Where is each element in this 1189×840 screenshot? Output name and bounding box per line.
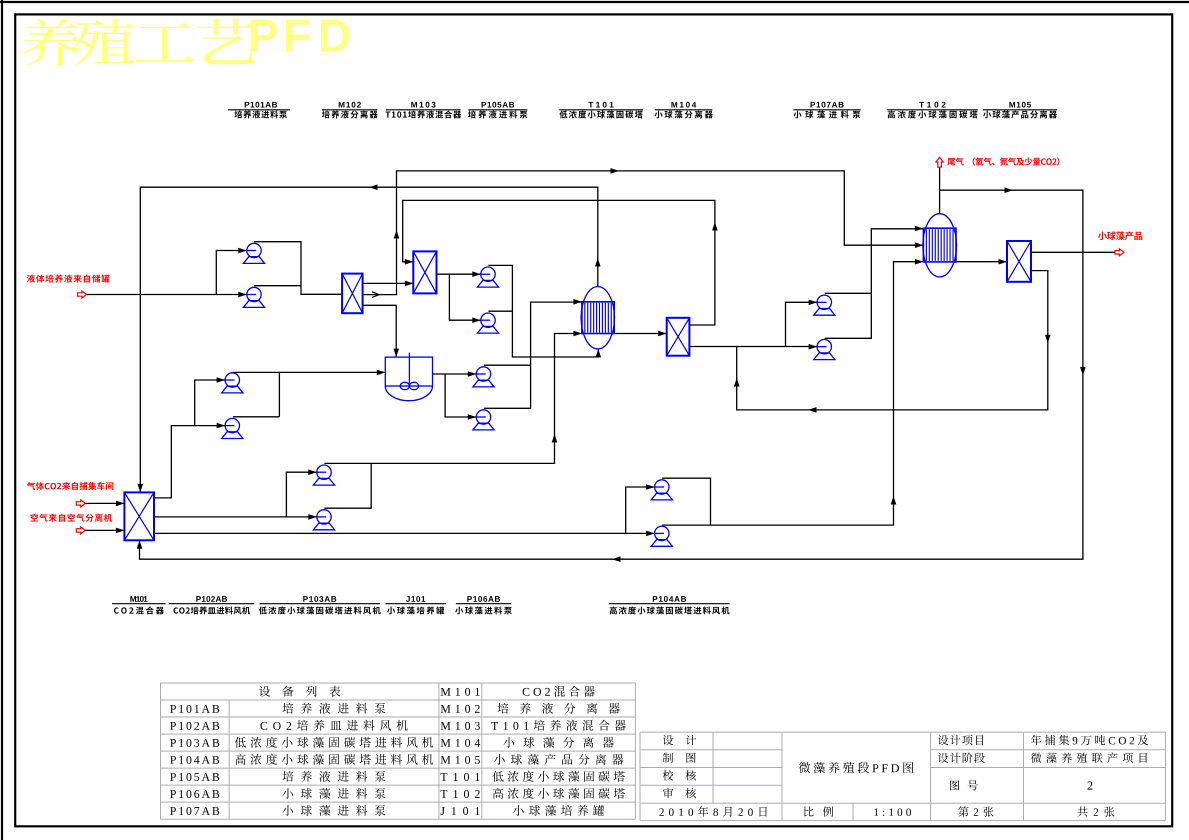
title block text <box>659 735 1148 817</box>
equipment label P104AB 高浓度小球藻固碳塔进料风机 <box>609 596 730 614</box>
equipment label M104 小球藻分离器 <box>655 102 713 119</box>
pump P102A <box>222 373 243 393</box>
stream inlet arrow (CO2 feed) <box>76 500 85 507</box>
title block grid <box>640 732 1166 821</box>
equipment label P101AB 培养液进料泵 <box>228 102 290 119</box>
wire P107 discharge to T102 top inlet <box>825 226 924 339</box>
separator M105 <box>1007 241 1031 282</box>
stream label 尾气（氧气、氮气及少量CO2） <box>947 157 1059 165</box>
wire M103 out to P105 pumps <box>437 271 481 323</box>
wire P102 discharge to J101 inlet <box>233 370 386 417</box>
pump P103B <box>313 510 334 530</box>
pump P105A <box>477 267 498 287</box>
wire P103 discharge to T101 gas inlet <box>324 331 582 509</box>
wire M105 to product outlet <box>1031 251 1115 253</box>
stream label 液体培养液来自储罐 <box>27 275 110 283</box>
pump P101B <box>243 287 264 307</box>
pump P107A <box>814 295 835 315</box>
equipment label T101 低浓度小球藻固碳塔 <box>559 102 643 119</box>
stream label 空气来自空气分离机 <box>31 514 113 522</box>
tank J101 with agitator <box>385 353 432 401</box>
wire culture feed to P101 pumps <box>87 248 247 298</box>
equipment label P102AB CO2培养皿进料风机 <box>169 596 254 614</box>
wire T101 outlet to M104 <box>614 331 667 337</box>
equipment label P105AB 培养液进料泵 <box>468 102 527 119</box>
equipment label P103AB 低浓度小球藻固碳塔进料风机 <box>259 596 381 614</box>
stream inlet arrow (culture feed) <box>78 291 87 298</box>
pump P102B <box>222 418 243 438</box>
pump P101A <box>243 243 264 263</box>
wire M104 outlet to P107 pumps <box>689 300 817 350</box>
wire T101 vent to M101 top <box>138 184 601 492</box>
equipment label P107AB 小球藻进料泵 <box>793 102 860 119</box>
wire M101 to P102 pumps <box>154 377 225 498</box>
stream label 小球藻产品 <box>1098 231 1142 240</box>
equipment list table <box>161 683 636 819</box>
wire P101 discharge to M102 <box>254 242 342 295</box>
drawing title 养殖工艺PFD <box>22 19 350 66</box>
stream label 气体CO2来自捕集车间 <box>27 482 113 490</box>
wire T102 outlet to M105 <box>956 259 1007 265</box>
wire M105 recycle to M104 outlet line <box>734 271 1051 413</box>
tail gas outlet arrow <box>936 157 943 167</box>
wire T102 vent and recycle to M101 bottom <box>137 168 1086 563</box>
wire air feed to M101 <box>86 528 125 534</box>
wire P104 discharge to T102 gas inlet <box>662 259 923 525</box>
wire M102 out1 to M103 <box>363 281 414 287</box>
wire CO2 feed to M101 <box>86 501 125 507</box>
equipment label M103 T101培养液混合器 <box>386 102 462 119</box>
stream inlet arrow (air feed) <box>76 527 85 534</box>
wire J101 outlet to P106 pumps <box>433 371 477 420</box>
mixer M103 <box>413 251 436 293</box>
pump P106B <box>473 410 494 430</box>
separator M104 <box>667 318 690 356</box>
wire M101 to P103 pumps <box>154 469 317 519</box>
wire M102 out2 riser to top header <box>363 168 924 297</box>
column T101 <box>581 287 614 349</box>
pump P104B <box>651 526 672 546</box>
mixer M101 <box>124 492 154 540</box>
pump P105B <box>477 313 498 333</box>
wire P106 discharge to T101 top inlet <box>484 299 582 408</box>
separator M102 <box>342 274 363 314</box>
product outlet arrow <box>1115 249 1124 256</box>
pump P104A <box>651 480 672 500</box>
equipment list table text <box>170 686 626 816</box>
equipment label J101 小球藻培养罐 <box>386 596 447 614</box>
equipment label T102 高浓度小球藻固碳塔 <box>887 102 978 119</box>
wire M102 out3 to J101 top <box>363 305 399 357</box>
equipment label P106AB 小球藻进料泵 <box>455 596 512 614</box>
column T102 <box>923 214 957 277</box>
pump P107B <box>814 340 835 360</box>
pump P103A <box>313 465 334 485</box>
wire M104 recycle to M103 top <box>403 200 718 325</box>
equipment label M105 小球藻产品分离器 <box>983 102 1057 119</box>
pump P106A <box>473 367 494 387</box>
wire M101 to P104 pumps <box>154 484 655 536</box>
equipment label M102 培养液分离器 <box>322 102 378 119</box>
wire P105 discharge to T101 bottom <box>488 265 601 357</box>
equipment label M101 CO2混合器 <box>112 596 166 614</box>
